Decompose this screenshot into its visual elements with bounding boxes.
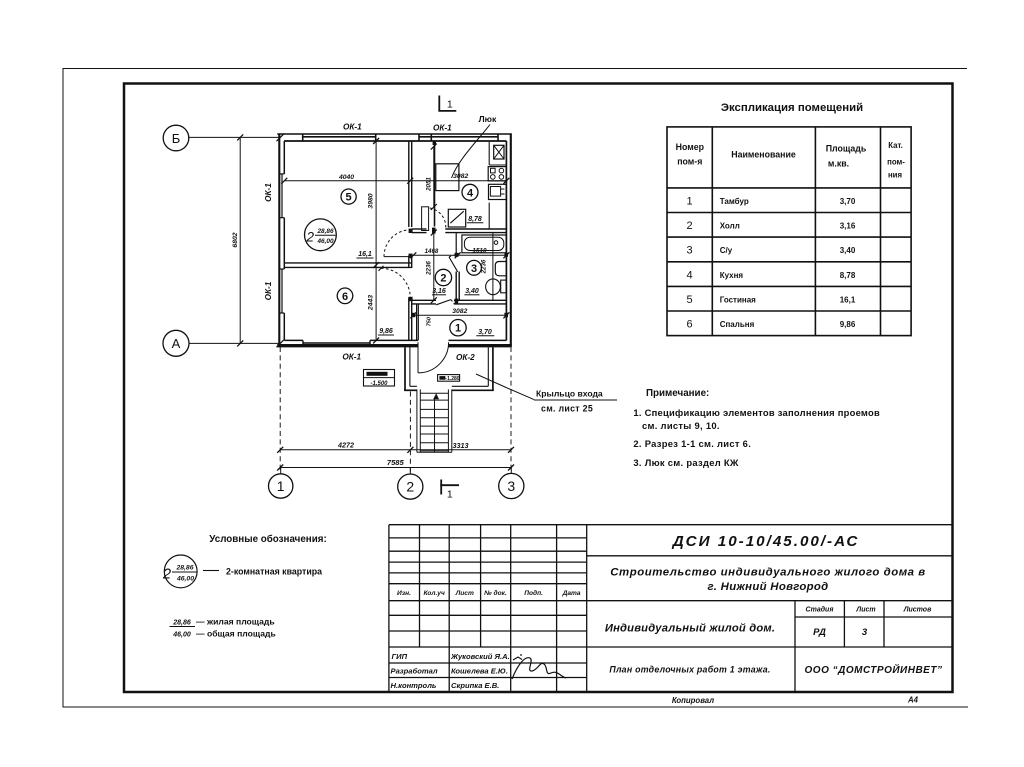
svg-text:3,16: 3,16 — [432, 288, 446, 295]
svg-text:5: 5 — [686, 294, 692, 306]
NOTES — [476, 374, 880, 468]
svg-text:Копировал: Копировал — [672, 696, 714, 705]
tambour top wall segments (double) — [412, 300, 507, 304]
signature squiggle — [512, 658, 566, 679]
svg-text:2. Разрез 1-1 см. лист 6.: 2. Разрез 1-1 см. лист 6. — [633, 438, 751, 449]
axis circle B — [163, 125, 189, 151]
svg-text:Спальня: Спальня — [720, 320, 755, 329]
svg-text:3082: 3082 — [453, 173, 468, 180]
exterior wall top outer — [277, 133, 511, 135]
interior dim line horizontal — [284, 180, 506, 182]
bedroom door arc — [381, 268, 410, 297]
tambour door arc — [451, 300, 454, 305]
svg-text:9,86: 9,86 — [379, 328, 393, 335]
kitchen vent box with X — [494, 145, 504, 159]
svg-text:А: А — [172, 336, 181, 351]
svg-text:Номер: Номер — [676, 142, 705, 152]
svg-text:3: 3 — [471, 263, 477, 275]
svg-text:Лист: Лист — [855, 607, 875, 614]
svg-text:Индивидуальный жилой дом.: Индивидуальный жилой дом. — [605, 623, 775, 635]
EXPLICATION TABLE — [667, 102, 911, 336]
vent square with diagonal — [448, 209, 465, 227]
interior wall A segments (double) — [409, 141, 412, 340]
svg-text:ООО “ДОМСТРОЙИНВЕТ”: ООО “ДОМСТРОЙИНВЕТ” — [805, 663, 943, 676]
LEGEND — [162, 534, 327, 639]
svg-text:пом-я: пом-я — [677, 157, 702, 167]
svg-text:3: 3 — [862, 627, 868, 638]
kitchen door arc — [430, 208, 446, 228]
room circle 2 — [435, 269, 451, 285]
interior dim line vertical left — [375, 141, 377, 340]
exterior wall right inner — [505, 141, 507, 340]
svg-text:1: 1 — [447, 99, 453, 111]
svg-text:Б: Б — [172, 131, 181, 146]
bathtub — [462, 235, 506, 253]
svg-text:3,16: 3,16 — [840, 222, 856, 231]
svg-text:46,00: 46,00 — [172, 632, 191, 639]
svg-text:2: 2 — [686, 220, 692, 232]
svg-text:Листов: Листов — [903, 607, 932, 614]
svg-text:Холл: Холл — [720, 222, 740, 231]
interior wall rooms 5/6 (double) — [284, 263, 411, 268]
TITLE BLOCK — [389, 525, 953, 705]
svg-text:Примечание:: Примечание: — [646, 388, 709, 399]
svg-text:4: 4 — [686, 270, 692, 282]
svg-text:Строительство индивидуального: Строительство индивидуального жилого дом… — [610, 567, 925, 579]
svg-text:4040: 4040 — [338, 174, 354, 181]
svg-text:3,70: 3,70 — [478, 329, 492, 336]
hall/bath partition upper line — [455, 233, 457, 256]
svg-text:ОК-1: ОК-1 — [264, 281, 273, 300]
axis A line — [189, 342, 279, 344]
svg-text:Изн.: Изн. — [397, 590, 411, 597]
exterior wall left outer — [278, 134, 280, 347]
grid circle stems — [281, 468, 512, 475]
junction ink blobs — [409, 141, 508, 317]
tambour dim line horizontal — [413, 314, 506, 316]
svg-text:Жуковский Я.А.: Жуковский Я.А. — [450, 652, 510, 661]
level mark box left — [364, 370, 395, 387]
toilet — [486, 279, 501, 295]
porch left wall — [405, 347, 410, 391]
window OK-1 left lower glazing — [279, 269, 284, 313]
section mark bottom — [440, 480, 459, 495]
window OK-1 bottom glazing — [303, 340, 370, 345]
hall dim line vertical — [433, 233, 435, 301]
svg-text:ОК-1: ОК-1 — [433, 124, 452, 133]
corridor/kitchen wall — [434, 141, 436, 227]
exterior wall bottom thick band segments — [277, 344, 511, 347]
stamp header labels — [397, 589, 581, 597]
grid circle 3 — [499, 473, 524, 498]
kitchen bottom wall (double) — [412, 229, 507, 233]
tambour door leaf — [436, 300, 451, 305]
section mark top — [438, 96, 456, 112]
bath door leaf — [449, 257, 458, 272]
stairs rails — [417, 389, 452, 452]
stage cells — [806, 606, 933, 614]
svg-text:9,86: 9,86 — [840, 320, 856, 329]
svg-text:3,70: 3,70 — [840, 197, 856, 206]
svg-text:7585: 7585 — [387, 458, 405, 467]
svg-text:Подп.: Подп. — [524, 589, 543, 597]
svg-text:План отделочных работ 1 этажа.: План отделочных работ 1 этажа. — [609, 665, 770, 675]
svg-text:3: 3 — [507, 478, 515, 494]
axis circle A — [163, 330, 189, 356]
svg-text:8,78: 8,78 — [840, 271, 856, 280]
bottom dim line 2 — [280, 467, 511, 469]
svg-text:1: 1 — [277, 478, 285, 494]
svg-text:Разработал: Разработал — [391, 667, 438, 676]
room circle 3 — [467, 260, 482, 275]
exterior wall top inner — [284, 140, 506, 142]
svg-text:6802: 6802 — [232, 232, 239, 247]
svg-text:46,00: 46,00 — [317, 238, 334, 245]
svg-text:6: 6 — [686, 319, 692, 331]
svg-text:Н.контроль: Н.контроль — [391, 681, 437, 690]
exterior wall bottom inner — [284, 339, 506, 341]
axis tick at wall A — [277, 340, 285, 348]
kitchen counter edge — [488, 142, 490, 165]
svg-text:ОК-1: ОК-1 — [342, 352, 361, 361]
svg-text:3082: 3082 — [452, 308, 467, 315]
svg-text:Крыльцо входа: Крыльцо входа — [536, 389, 603, 399]
svg-text:1. Спецификацию элементов запо: 1. Спецификацию элементов заполнения про… — [633, 407, 880, 418]
svg-text:28,86: 28,86 — [175, 565, 193, 572]
svg-text:Кат.: Кат. — [888, 141, 903, 150]
svg-text:-1.280: -1.280 — [445, 376, 459, 382]
svg-text:2: 2 — [306, 230, 315, 245]
svg-text:-1.500: -1.500 — [370, 381, 388, 387]
grid circle 1 — [269, 474, 293, 498]
living room door leaf — [384, 256, 410, 258]
corridor dim line vertical — [433, 147, 435, 207]
svg-text:ОК-1: ОК-1 — [343, 122, 362, 131]
apartment marker symbol — [164, 555, 197, 588]
svg-text:Кошелева Е.Ю.: Кошелева Е.Ю. — [451, 667, 508, 676]
hall/bath dim line horizontal — [413, 254, 508, 256]
porch bottom walls — [404, 386, 494, 390]
svg-text:28,86: 28,86 — [172, 620, 191, 627]
svg-text:№ док.: № док. — [484, 589, 507, 597]
svg-text:2: 2 — [162, 567, 171, 583]
table grid — [667, 127, 911, 336]
kitchen door leaf — [422, 207, 429, 231]
svg-text:РД: РД — [813, 627, 826, 638]
hatch (Luk) square — [436, 164, 459, 191]
svg-text:Стадия: Стадия — [806, 606, 834, 614]
room circle 1 — [450, 320, 466, 336]
svg-text:1510: 1510 — [472, 247, 487, 254]
main drawing frame — [124, 84, 953, 693]
svg-text:5: 5 — [346, 192, 352, 204]
living room door arc — [384, 230, 411, 257]
svg-text:3. Люк см. раздел КЖ: 3. Люк см. раздел КЖ — [633, 457, 739, 468]
svg-text:Кол.уч: Кол.уч — [424, 590, 445, 597]
svg-text:Тамбур: Тамбур — [720, 197, 749, 206]
svg-text:ОК-2: ОК-2 — [456, 353, 475, 362]
svg-text:1468: 1468 — [425, 248, 439, 255]
svg-text:3,40: 3,40 — [840, 246, 856, 255]
svg-text:— общая площадь: — общая площадь — [196, 629, 276, 639]
svg-text:С/у: С/у — [720, 246, 733, 255]
exterior wall left inner segments — [283, 141, 285, 340]
porch leader line — [476, 374, 534, 400]
axis B line — [189, 136, 279, 138]
room circle 5 — [341, 189, 356, 204]
svg-text:2: 2 — [440, 273, 446, 285]
bath dim line vertical — [492, 233, 494, 301]
wash basin — [495, 262, 506, 276]
bottom dim line 1 — [280, 449, 511, 451]
stairs treads — [420, 393, 448, 451]
grid circle 2 — [398, 474, 423, 499]
svg-text:пом-: пом- — [887, 158, 905, 167]
level mark box porch — [438, 375, 460, 382]
entry door arc — [418, 342, 449, 373]
porch right wall — [488, 347, 493, 391]
svg-text:46,00: 46,00 — [176, 576, 194, 583]
svg-text:ДСИ 10-10/45.00/-АС: ДСИ 10-10/45.00/-АС — [671, 533, 860, 550]
svg-text:ОК-1: ОК-1 — [264, 183, 273, 202]
svg-text:Дата: Дата — [562, 590, 581, 597]
svg-text:— жилая площадь: — жилая площадь — [196, 617, 275, 627]
svg-text:1: 1 — [686, 196, 692, 208]
svg-text:4272: 4272 — [337, 440, 354, 449]
svg-text:2051: 2051 — [426, 177, 433, 192]
window OK-1 left upper glazing — [279, 174, 284, 218]
svg-text:28,86: 28,86 — [317, 228, 334, 235]
svg-text:А4: А4 — [907, 696, 919, 705]
svg-text:1: 1 — [447, 489, 453, 501]
table headers — [676, 142, 867, 169]
bottom extension dashed lines — [280, 347, 511, 472]
svg-text:2236: 2236 — [425, 261, 432, 276]
room circle 4 — [462, 184, 478, 200]
svg-text:см. листы 9, 10.: см. листы 9, 10. — [642, 420, 720, 431]
svg-text:ния: ния — [888, 171, 902, 180]
svg-text:2-комнатная квартира: 2-комнатная квартира — [226, 567, 322, 577]
svg-text:2: 2 — [406, 479, 414, 495]
stove 4 burners — [488, 167, 506, 181]
apartment marker on plan — [305, 219, 337, 251]
stairs center line + up arrow — [434, 399, 436, 452]
table rows — [686, 196, 692, 331]
exterior wall right outer — [510, 134, 512, 347]
tambour pilaster lines — [416, 304, 418, 341]
svg-text:16,1: 16,1 — [840, 296, 856, 305]
paper outer border — [63, 69, 968, 708]
svg-text:2443: 2443 — [367, 295, 374, 311]
svg-text:Гостиная: Гостиная — [720, 296, 756, 305]
svg-text:г. Нижний Новгород: г. Нижний Новгород — [708, 581, 829, 593]
svg-text:3313: 3313 — [453, 441, 469, 450]
hall/bath partition segments — [456, 272, 459, 301]
svg-text:16,1: 16,1 — [358, 251, 372, 258]
room circle 6 — [337, 288, 353, 304]
svg-text:см. лист 25: см. лист 25 — [541, 404, 593, 414]
svg-text:Наименование: Наименование — [731, 150, 796, 160]
bath door arc — [449, 255, 458, 257]
svg-text:Скрипка Е.В.: Скрипка Е.В. — [451, 681, 499, 690]
svg-text:Условные обозначения:: Условные обозначения: — [209, 534, 326, 545]
svg-text:Экспликация помещений: Экспликация помещений — [721, 102, 863, 114]
stamp signature rows — [391, 652, 510, 690]
PLAN — [163, 96, 524, 501]
svg-text:Лист: Лист — [455, 590, 474, 597]
stamp grid lines — [389, 525, 953, 692]
svg-text:4: 4 — [467, 187, 474, 199]
axis tick at wall B — [277, 134, 285, 142]
window OK-1 top right glazing — [419, 134, 498, 141]
svg-text:м.кв.: м.кв. — [828, 159, 849, 169]
svg-text:3: 3 — [686, 245, 692, 257]
svg-text:Люк: Люк — [479, 114, 497, 124]
svg-text:Кухня: Кухня — [720, 271, 744, 280]
svg-text:3,40: 3,40 — [465, 288, 479, 295]
svg-text:Площадь: Площадь — [826, 144, 867, 154]
svg-text:8,78: 8,78 — [468, 216, 482, 223]
svg-text:3980: 3980 — [367, 193, 374, 208]
svg-text:750: 750 — [426, 316, 432, 326]
svg-text:1: 1 — [455, 323, 461, 335]
svg-text:ГИП: ГИП — [392, 652, 408, 661]
kitchen sink unit — [489, 184, 507, 199]
left dim line 6802 — [239, 137, 241, 343]
svg-text:6: 6 — [342, 291, 348, 303]
window OK-1 top left glazing — [303, 134, 376, 141]
